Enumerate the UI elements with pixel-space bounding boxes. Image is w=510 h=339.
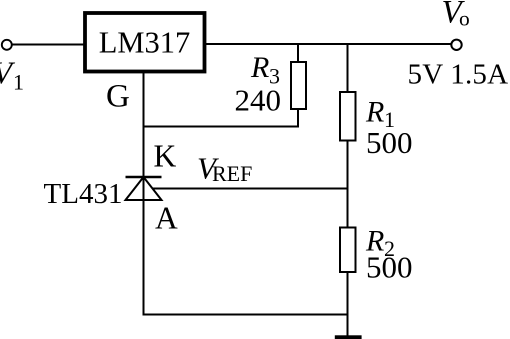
svg-text:o: o	[459, 7, 470, 31]
terminal output	[451, 40, 461, 50]
svg-text:500: 500	[366, 250, 413, 285]
wire input	[11, 44, 85, 46]
resistor R1	[340, 92, 356, 141]
wire R1 top	[347, 44, 349, 93]
wire bottom rail	[144, 314, 348, 316]
svg-text:1: 1	[13, 70, 24, 95]
svg-text:A: A	[155, 201, 178, 236]
svg-text:LM317: LM317	[99, 26, 191, 60]
label R1	[365, 96, 395, 133]
svg-text:240: 240	[235, 83, 282, 118]
wire output rail	[204, 43, 452, 45]
wire adjust horizontal	[143, 126, 299, 128]
svg-text:REF: REF	[212, 161, 252, 186]
resistor R3	[291, 62, 306, 109]
regulator TL431 triangle	[126, 177, 162, 200]
svg-text:500: 500	[366, 125, 413, 160]
label R3	[250, 51, 280, 89]
label Vo	[442, 0, 470, 31]
regulator U1 LM317	[85, 13, 205, 72]
wire R3 bottom	[297, 108, 299, 127]
wire R2 top	[347, 188, 349, 228]
regulator TL431 cathode bar	[126, 176, 162, 179]
label R2	[365, 225, 395, 262]
resistor R2	[340, 228, 356, 273]
wire R1 bottom	[347, 140, 349, 189]
wire R3 top	[297, 44, 299, 63]
svg-text:5V 1.5A: 5V 1.5A	[408, 59, 509, 91]
svg-text:R: R	[250, 51, 269, 84]
svg-text:R: R	[365, 96, 384, 129]
svg-text:G: G	[106, 79, 130, 115]
wire anode down	[143, 177, 145, 316]
wire R2 bottom	[347, 271, 349, 336]
terminal input	[2, 40, 12, 50]
wire adjust vertical	[143, 72, 145, 178]
svg-text:K: K	[154, 139, 177, 174]
wire VREF	[153, 188, 349, 190]
ground	[335, 335, 362, 339]
svg-text:TL431: TL431	[44, 178, 123, 210]
label VREF	[197, 151, 252, 187]
label V1	[0, 55, 24, 95]
